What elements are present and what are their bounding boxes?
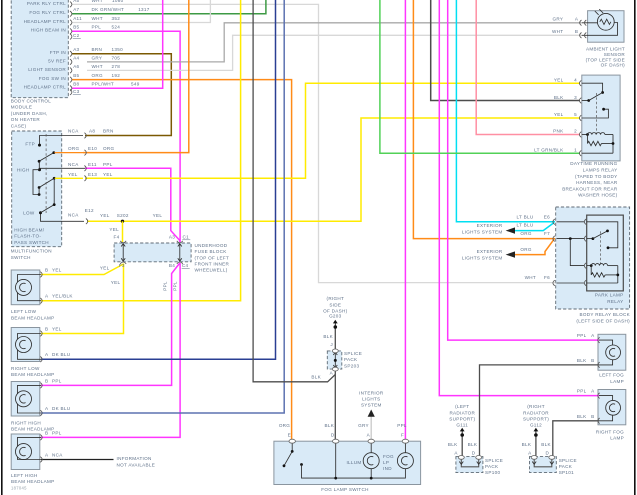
svg-text:FOG SW IN: FOG SW IN <box>39 76 66 81</box>
BCM pin bracket A6 <box>70 68 72 74</box>
svg-text:524: 524 <box>112 25 121 30</box>
multifunction switch blade2 to E13 contact <box>38 177 56 195</box>
svg-text:LIGHTS SYSTEM: LIGHTS SYSTEM <box>462 255 503 260</box>
wire LT GRN/BLK from top to daytime running lamps relay pin 1 <box>380 0 580 153</box>
svg-text:(RIGHT: (RIGHT <box>527 404 545 409</box>
wire BRN 1350 from BCM A3 to multifunction switch A8 <box>72 54 172 136</box>
splice pack SP101 internals <box>532 459 554 467</box>
svg-text:WHT: WHT <box>92 0 103 3</box>
svg-text:DK GRN/WHT: DK GRN/WHT <box>92 7 125 12</box>
multifunction switch HIGH contact <box>38 168 41 171</box>
left fog lamp box <box>598 334 626 370</box>
svg-text:(LEFT: (LEFT <box>455 404 469 409</box>
splice pack SP203 labels <box>311 334 362 379</box>
svg-text:LT GRN/BLK: LT GRN/BLK <box>534 147 564 152</box>
wire BLK from left fog lamp B to splice pack SP100 D <box>480 365 600 456</box>
svg-text:B: B <box>45 327 48 332</box>
svg-text:549: 549 <box>131 82 140 87</box>
DRL relay resistor <box>582 135 615 154</box>
ground G203 symbol <box>333 320 338 329</box>
svg-text:GRY: GRY <box>92 55 103 60</box>
BCM name text <box>11 98 51 128</box>
park lamp relay actuation dashed line <box>600 231 602 265</box>
right high beam headlamp bulb <box>16 385 42 413</box>
DRL relay pin labels <box>534 77 577 152</box>
svg-text:BREAKOUT FOR REAR: BREAKOUT FOR REAR <box>562 186 618 191</box>
rotated PPL wire labels <box>163 281 178 291</box>
wire YEL from multifunction switch E13 to daytime running lamps relay pin 4 <box>85 83 580 178</box>
wire PPL from underhood fuse block C4 to left high beam B <box>41 263 180 437</box>
splice pack SP203 pin A oval <box>332 367 338 371</box>
splice pack SP100 pin D oval <box>476 456 482 460</box>
svg-text:(LEFT SIDE OF DASH): (LEFT SIDE OF DASH) <box>576 318 630 323</box>
fog lamp switch ILLUM lamp <box>363 441 379 469</box>
svg-text:BLK: BLK <box>468 442 478 447</box>
svg-text:FLASH-TO-: FLASH-TO- <box>14 234 41 239</box>
svg-text:SPLICE: SPLICE <box>344 351 362 356</box>
svg-text:LEFT HIGH: LEFT HIGH <box>11 473 38 478</box>
splice pack SP101 labels <box>522 442 577 475</box>
fog lamp switch box <box>274 441 421 484</box>
left fog lamp pin B bracket <box>598 362 600 368</box>
wire PNK from top to daytime running lamps relay pin 2 <box>476 0 580 135</box>
left low beam headlamp bulb <box>16 275 42 301</box>
svg-text:PPL: PPL <box>163 281 168 291</box>
wire ORG 192 from BCM B5 to fog lamp switch E <box>72 80 292 442</box>
park lamp relay switch <box>587 222 618 249</box>
svg-text:YEL: YEL <box>100 266 110 271</box>
multifunction switch contact labels <box>17 142 35 216</box>
fog lamp switch pin labels <box>279 423 407 438</box>
svg-text:B: B <box>591 414 594 419</box>
underhood fuse block box <box>114 243 191 262</box>
svg-text:A11: A11 <box>73 16 82 21</box>
wire YEL from underhood fuse block F3 to left low beam B <box>41 264 124 275</box>
wire DK BLU from top to right high beam A <box>41 0 284 413</box>
svg-text:A: A <box>45 453 49 458</box>
BCM pin bracket A7 <box>70 11 72 17</box>
svg-text:PPL: PPL <box>397 423 407 428</box>
svg-text:F7: F7 <box>544 231 550 236</box>
svg-text:PASS SWITCH: PASS SWITCH <box>14 240 49 245</box>
svg-text:DAYTIME RUNNING: DAYTIME RUNNING <box>570 161 617 166</box>
svg-text:A: A <box>45 406 49 411</box>
fog lamp switch pin D oval <box>333 439 339 443</box>
svg-text:(RIGHT: (RIGHT <box>326 296 344 301</box>
multifunction switch blade FTP to E10 <box>38 151 56 168</box>
DRL relay name text <box>562 161 618 198</box>
svg-text:FTP IN: FTP IN <box>50 50 66 55</box>
svg-text:LIGHTS: LIGHTS <box>362 397 380 402</box>
svg-text:BLK: BLK <box>577 358 587 363</box>
wire YEL multifunction switch E13 stub <box>55 177 83 179</box>
DRL relay actuation dashed line <box>595 93 597 134</box>
svg-text:YEL: YEL <box>52 327 62 332</box>
fog lamp switch ground rail <box>302 441 406 479</box>
svg-text:LT BLU: LT BLU <box>517 222 534 227</box>
svg-text:RADIATOR: RADIATOR <box>449 410 475 415</box>
splice pack SP100 pin A oval <box>458 456 464 460</box>
arrow exterior lights system (lt blu) <box>506 227 515 233</box>
left high beam headlamp box <box>11 434 40 470</box>
park lamp relay inner pin brackets <box>584 219 586 286</box>
svg-text:B4: B4 <box>169 263 175 268</box>
left fog lamp pin A bracket <box>598 337 600 343</box>
svg-text:RIGHT FOG: RIGHT FOG <box>596 429 624 434</box>
svg-text:DK BLU: DK BLU <box>52 406 70 411</box>
svg-text:BLK: BLK <box>323 334 333 339</box>
svg-text:PPL: PPL <box>52 431 62 436</box>
DRL relay internal switch <box>582 83 604 102</box>
svg-text:PPL: PPL <box>172 281 177 291</box>
svg-text:1080: 1080 <box>112 0 124 3</box>
splice pack SP101 pin A oval <box>531 456 537 460</box>
right fog lamp pin B bracket <box>598 418 600 424</box>
svg-text:E11: E11 <box>88 162 97 167</box>
MFS pin bracket E10 <box>84 150 86 156</box>
wire PPL/WHT 549 from BCM B8 to top <box>72 0 163 88</box>
svg-text:BLK: BLK <box>522 442 532 447</box>
left fog lamp internals <box>599 340 620 365</box>
svg-text:B8: B8 <box>73 82 79 87</box>
underhood fuse block pin B4 C4 <box>177 262 183 264</box>
svg-text:LEFT LOW: LEFT LOW <box>11 309 37 314</box>
svg-text:SPLICE: SPLICE <box>485 458 503 463</box>
svg-text:SP101: SP101 <box>559 470 574 475</box>
DRL relay pin 2 bracket <box>579 132 581 138</box>
svg-text:INTERIOR: INTERIOR <box>359 390 384 395</box>
svg-text:D: D <box>545 450 549 455</box>
right low beam labels <box>11 327 70 378</box>
svg-text:SPLICE: SPLICE <box>559 458 577 463</box>
wire YEL from S202 to underhood fuse block F4 <box>122 221 124 242</box>
wire ORG from park lamp relay F7 to exterior lights system arrow <box>509 239 555 254</box>
body relay block pin F6 bracket <box>553 280 555 286</box>
svg-text:LIGHT SENSOR: LIGHT SENSOR <box>28 67 66 72</box>
svg-text:1: 1 <box>574 147 577 152</box>
svg-text:BEAM HEADLAMP: BEAM HEADLAMP <box>11 372 54 377</box>
svg-text:RADIATOR: RADIATOR <box>523 410 549 415</box>
svg-text:1350: 1350 <box>112 47 124 52</box>
svg-text:A6: A6 <box>73 64 79 69</box>
svg-text:192: 192 <box>112 73 121 78</box>
ambient light sensor labels <box>552 17 625 68</box>
svg-text:PPL: PPL <box>577 388 587 393</box>
svg-text:INFORMATION: INFORMATION <box>117 456 152 461</box>
wire WHT 352 from BCM A11 to top <box>72 0 211 23</box>
ambient light sensor box <box>588 11 624 43</box>
multifunction switch pin row labels <box>68 129 162 219</box>
DRL relay pin 3 bracket <box>579 98 581 104</box>
svg-text:BLK: BLK <box>554 95 564 100</box>
svg-text:2: 2 <box>574 129 577 134</box>
svg-text:GRY: GRY <box>553 17 564 22</box>
svg-text:(UNDER DASH,: (UNDER DASH, <box>11 111 48 116</box>
park lamp relay name text <box>576 293 630 324</box>
body control module box <box>11 0 68 98</box>
wire PPL 524 from BCM B5 to underhood fuse block C1 <box>72 31 181 242</box>
ambient light sensor pin B bracket <box>580 33 587 39</box>
svg-text:HIGH: HIGH <box>17 168 30 173</box>
svg-text:WHEELWELL): WHEELWELL) <box>195 268 228 273</box>
svg-text:YEL/BLK: YEL/BLK <box>52 294 73 299</box>
multifunction switch E13 contact link <box>53 178 55 204</box>
svg-text:LAMP: LAMP <box>610 379 624 384</box>
multifunction switch rail HIGH to blade2 <box>33 170 40 196</box>
page right border <box>634 0 636 495</box>
wire WHT 278 from BCM A6 to ambient light sensor B <box>87 35 581 70</box>
svg-text:YEL: YEL <box>52 268 62 273</box>
splice pack SP203 internals <box>333 352 337 368</box>
svg-text:HEADLAMP CTRL: HEADLAMP CTRL <box>24 85 67 90</box>
arrow interior lights system <box>368 410 375 417</box>
svg-text:EXTERIOR: EXTERIOR <box>477 223 503 228</box>
right fog lamp pin A bracket <box>598 393 600 399</box>
fog lamp switch pin E oval <box>289 439 295 443</box>
svg-text:C3: C3 <box>73 89 80 94</box>
svg-text:G111: G111 <box>456 422 468 427</box>
DRL relay pin 1 bracket <box>579 150 581 156</box>
svg-text:BODY RELAY BLOCK: BODY RELAY BLOCK <box>579 312 630 317</box>
BCM pin bracket A11 <box>70 20 72 26</box>
svg-text:LP: LP <box>383 460 389 465</box>
svg-text:YEL: YEL <box>554 112 564 117</box>
svg-text:PACK: PACK <box>485 464 499 469</box>
svg-text:705: 705 <box>112 55 121 60</box>
svg-text:LT BLU: LT BLU <box>517 214 534 219</box>
wire PPL from top to right fog lamp A <box>439 0 599 396</box>
svg-text:F3: F3 <box>119 263 125 268</box>
svg-text:SIDE: SIDE <box>329 302 341 307</box>
svg-text:ORG: ORG <box>520 231 531 236</box>
splice pack SP100 labels <box>448 442 503 475</box>
ambient light sensor internals <box>582 9 618 35</box>
exterior lights system labels <box>462 223 503 260</box>
left high beam headlamp bulb <box>16 437 42 459</box>
svg-text:RIGHT LOW: RIGHT LOW <box>11 366 40 371</box>
svg-text:SWITCH: SWITCH <box>11 255 31 260</box>
DRL relay pin 4 bracket <box>579 80 581 86</box>
body relay block pin E6 bracket <box>553 219 555 225</box>
svg-text:BLK: BLK <box>577 414 587 419</box>
wire BLK from splice pack SP203 A to fog lamp switch D <box>334 369 336 442</box>
information not available note <box>117 456 156 467</box>
wire BLK from top to daytime running lamps relay pin 3 <box>431 0 580 101</box>
BCM connector C3 bracket <box>70 89 72 95</box>
park lamp relay coil <box>587 264 618 267</box>
svg-text:A: A <box>367 433 371 438</box>
svg-text:YEL: YEL <box>554 77 564 82</box>
wire NCA information not available from left high beam A <box>41 459 114 461</box>
svg-text:B: B <box>591 358 594 363</box>
svg-text:BLK: BLK <box>541 442 551 447</box>
svg-text:EXTERIOR: EXTERIOR <box>477 249 503 254</box>
svg-text:D: D <box>472 450 476 455</box>
left high beam pin A bracket <box>40 457 42 463</box>
park lamp relay internal wire E6 row <box>557 221 585 223</box>
svg-text:NOT AVAILABLE: NOT AVAILABLE <box>117 462 156 467</box>
fog lamp switch FOG LP IND lamp <box>397 441 413 469</box>
ambient light sensor pin A bracket <box>580 20 587 26</box>
interior lights system label <box>359 390 384 407</box>
right high beam labels <box>11 379 70 432</box>
right high beam headlamp box <box>11 382 40 417</box>
svg-text:WHT: WHT <box>552 29 563 34</box>
svg-text:FTP: FTP <box>25 142 35 147</box>
svg-text:BRN: BRN <box>92 47 103 52</box>
ground G111 labels <box>449 404 475 427</box>
svg-text:C4: C4 <box>182 263 189 268</box>
underhood fuse block pin F3 <box>120 262 126 264</box>
svg-text:BLK: BLK <box>448 442 458 447</box>
svg-text:ORG: ORG <box>103 146 114 151</box>
BCM pin bracket A4 <box>70 59 72 65</box>
wire NCA multifunction switch A8 to FTP contact <box>40 136 84 145</box>
svg-text:HEADLAMP CTRL: HEADLAMP CTRL <box>24 19 67 24</box>
svg-text:5: 5 <box>574 112 577 117</box>
svg-text:B5: B5 <box>73 73 79 78</box>
wire YEL from multifunction switch E12 through S202 to DRL relay pin 5 <box>87 118 580 221</box>
splice pack SP100 internals <box>459 459 480 467</box>
svg-text:A4: A4 <box>73 55 79 60</box>
svg-text:F4: F4 <box>114 235 120 240</box>
svg-text:LAMP: LAMP <box>610 436 624 441</box>
svg-text:A: A <box>454 450 458 455</box>
svg-text:FOG RLY CTRL: FOG RLY CTRL <box>29 10 66 15</box>
left high beam labels <box>11 431 63 491</box>
left high beam pin B bracket <box>40 435 42 441</box>
svg-text:ORG: ORG <box>68 146 79 151</box>
wire ORG multifunction switch E10 stub <box>55 152 84 154</box>
left low beam headlamp box <box>11 270 40 305</box>
MFS pin bracket E13 <box>84 176 86 182</box>
wire PPL from top to left fog lamp A <box>448 0 599 340</box>
svg-text:E6: E6 <box>544 214 550 219</box>
wire GRY 705 from BCM A4 to ambient light sensor A <box>87 23 581 62</box>
fog lamp switch pin F oval <box>402 439 408 443</box>
svg-text:B: B <box>45 431 48 436</box>
fog lamp switch pin A oval <box>368 439 374 443</box>
ground G111 symbol <box>460 428 465 437</box>
left low beam pin B bracket <box>40 272 42 278</box>
svg-text:MODULE: MODULE <box>11 105 32 110</box>
svg-text:A: A <box>528 450 532 455</box>
svg-text:F: F <box>401 433 404 438</box>
right high beam pin B bracket <box>40 383 42 389</box>
svg-text:PARK RLY CTRL: PARK RLY CTRL <box>27 1 66 6</box>
svg-text:J: J <box>330 342 333 347</box>
svg-text:BLK: BLK <box>311 375 321 380</box>
underhood fuse block internal path C1-C4 <box>178 244 182 262</box>
svg-text:PARK LAMP: PARK LAMP <box>595 293 624 298</box>
svg-text:FRONT INNER: FRONT INNER <box>195 262 230 267</box>
wire NCA multifunction switch E12 to LOW contact <box>41 214 85 222</box>
body relay block pin labels <box>517 214 551 280</box>
svg-text:YEL: YEL <box>103 172 113 177</box>
wire YEL from underhood fuse block F3 to right low beam B <box>41 264 124 334</box>
svg-text:C1: C1 <box>183 235 190 240</box>
wire DK BLU from top to right low beam A <box>41 0 276 359</box>
svg-text:BRN: BRN <box>103 129 114 134</box>
multifunction switch LOW contact <box>39 211 42 214</box>
park lamp relay internal wire F7 row with junction <box>557 237 585 265</box>
svg-text:RELAY: RELAY <box>607 299 623 304</box>
splice pack SP203 box <box>327 351 342 369</box>
svg-text:SENSOR: SENSOR <box>604 52 626 57</box>
svg-text:DK BLU: DK BLU <box>52 352 70 357</box>
svg-text:B: B <box>45 268 48 273</box>
arrow exterior lights system (org) <box>506 251 515 257</box>
DRL relay NO contact from pin 5 <box>582 108 609 118</box>
svg-text:A5: A5 <box>73 0 79 3</box>
park lamp relay internal wire F6 row <box>557 282 585 284</box>
svg-text:NCA: NCA <box>52 453 63 458</box>
wire YEL/BLK from left low beam A to top <box>41 0 241 301</box>
svg-text:FUSE BLOCK: FUSE BLOCK <box>195 249 228 254</box>
svg-text:(TOP OF LEFT: (TOP OF LEFT <box>195 255 230 260</box>
wire PPL from top to fog lamp switch F <box>404 0 406 441</box>
BCM pin bracket B5 <box>70 28 72 34</box>
svg-text:NCA: NCA <box>68 162 79 167</box>
svg-text:4: 4 <box>574 77 577 82</box>
svg-text:LAMPS RELAY: LAMPS RELAY <box>583 168 618 173</box>
svg-text:A3: A3 <box>73 47 79 52</box>
page left border <box>1 0 3 495</box>
svg-text:C2: C2 <box>73 33 80 38</box>
svg-text:E10: E10 <box>88 146 97 151</box>
BCM connector C2 bracket <box>70 34 72 40</box>
underhood fuse block name text <box>195 243 230 273</box>
wire BLK ground G112 to splice pack SP101 A <box>535 435 537 456</box>
wire WHT 1080 from BCM A5 to park lamp relay F6 <box>72 4 556 282</box>
svg-text:HIGH BEAM/: HIGH BEAM/ <box>14 228 44 233</box>
wire LT BLU from top to park lamp relay E6 <box>456 0 555 222</box>
BCM pin bracket B5b <box>70 77 72 83</box>
splice S202 <box>121 220 124 223</box>
svg-text:SUPPORT): SUPPORT) <box>449 417 475 422</box>
park lamp relay box <box>587 215 624 291</box>
svg-text:A: A <box>45 294 49 299</box>
underhood fuse block internal path F4-F3 <box>121 244 125 262</box>
svg-text:UNDERHOOD: UNDERHOOD <box>195 243 228 248</box>
svg-text:A7: A7 <box>73 7 79 12</box>
right fog lamp internals <box>599 396 620 421</box>
svg-text:PPL: PPL <box>103 162 113 167</box>
left low beam labels <box>11 268 73 321</box>
right low beam pin A bracket <box>40 357 42 363</box>
svg-text:BEAM HEADLAMP: BEAM HEADLAMP <box>11 315 54 320</box>
svg-text:ILLUM: ILLUM <box>346 460 361 465</box>
wire PPL from multifunction switch E11 to underhood fuse block A3 <box>85 168 180 242</box>
svg-text:ORG: ORG <box>520 247 531 252</box>
multifunction switch mechanical dashed link <box>45 134 47 213</box>
svg-text:SP100: SP100 <box>485 470 500 475</box>
svg-text:B5: B5 <box>73 25 79 30</box>
wire ORG from multifunction switch E10 to top <box>83 0 189 153</box>
ground G112 labels <box>523 404 549 427</box>
svg-text:YEL: YEL <box>111 280 121 285</box>
MFS pin bracket E12 <box>86 219 88 225</box>
svg-text:LOW: LOW <box>23 211 35 216</box>
wire BLK ground G111 to splice pack SP100 A <box>461 435 463 456</box>
svg-text:G203: G203 <box>329 314 342 319</box>
right fog lamp box <box>598 390 626 425</box>
wire GRY from fog lamp switch A to interior lights system arrow <box>370 417 372 442</box>
svg-text:187045: 187045 <box>11 486 27 491</box>
multifunction switch FTP contact <box>38 144 41 147</box>
svg-text:1317: 1317 <box>138 7 150 12</box>
svg-text:YEL: YEL <box>109 227 119 232</box>
